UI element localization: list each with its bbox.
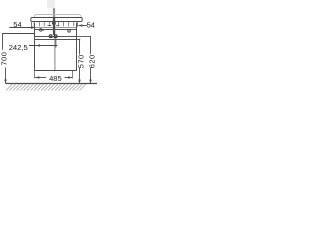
dim 485 left arrow bbox=[35, 76, 39, 78]
cabinet shelf line 1 bbox=[35, 36, 77, 38]
supply arrow left bbox=[42, 29, 45, 31]
bowl tick x44 bbox=[43, 22, 45, 27]
svg-text:485: 485 bbox=[49, 74, 62, 83]
svg-text:620: 620 bbox=[88, 54, 97, 68]
faucet body bbox=[47, 0, 55, 8]
dim 54 left arrow bbox=[31, 26, 35, 29]
dim 242.5 extension bbox=[55, 39, 57, 48]
supply line bbox=[35, 29, 77, 31]
dim 700 lower line bbox=[5, 68, 7, 84]
bowl tick x68.5 bbox=[68, 22, 70, 27]
supply circle left bbox=[40, 29, 43, 32]
dim 485 left ext bbox=[34, 71, 36, 79]
faucet stem bbox=[53, 8, 55, 18]
dim 700 bottom arrow bbox=[4, 80, 7, 84]
basin rim bbox=[31, 18, 82, 22]
dim 620 upper line bbox=[90, 37, 92, 55]
bowl tick x58.5 bbox=[58, 22, 60, 27]
bowl tick x73.5 bbox=[73, 22, 75, 27]
svg-text:570: 570 bbox=[76, 54, 85, 68]
dim 620 ext bbox=[77, 36, 92, 38]
dim 620 lower line bbox=[90, 68, 92, 83]
dash right of pipe bbox=[56, 25, 59, 27]
trap bbox=[49, 35, 52, 38]
apron bottom line bbox=[34, 27, 78, 29]
svg-text:242,5: 242,5 bbox=[9, 43, 28, 52]
bowl tick x39 bbox=[38, 22, 40, 27]
floor line bbox=[6, 83, 98, 85]
dim 485 line right bbox=[65, 77, 73, 79]
cabinet left edge bbox=[34, 23, 36, 71]
dim 242.5 line bbox=[29, 45, 57, 47]
cabinet bottom bbox=[35, 70, 77, 72]
drain pipe dark bbox=[53, 18, 55, 36]
dim 570 bottom arrow bbox=[78, 80, 81, 84]
drain pipe grey to bottom bbox=[54, 35, 56, 70]
rim right extension bbox=[77, 21, 79, 27]
bowl tick x49 bbox=[48, 22, 50, 27]
dim 570 upper line bbox=[79, 40, 81, 55]
dim 700 top leader bbox=[3, 34, 36, 50]
dim 570 ext bbox=[77, 39, 80, 41]
svg-text:700: 700 bbox=[0, 52, 9, 66]
supply circle right bbox=[68, 30, 71, 33]
dim 570 ext arrow bbox=[77, 39, 80, 41]
cabinet shelf line 2 bbox=[35, 39, 77, 41]
svg-text:54: 54 bbox=[87, 21, 95, 30]
dim 485 right ext bbox=[72, 71, 74, 79]
dim 485 right arrow bbox=[68, 76, 72, 78]
floor hatching bbox=[6, 84, 86, 91]
bowl tick x63 bbox=[62, 22, 64, 27]
dim 54 left line bbox=[9, 27, 35, 29]
dim 570 lower line bbox=[79, 68, 81, 83]
dim 485 line left bbox=[35, 77, 47, 79]
drain fitting bbox=[52, 21, 56, 24]
basin upstand top line bbox=[36, 14, 80, 16]
dim 54 right arrow bbox=[79, 24, 83, 26]
rim left extension bbox=[31, 22, 33, 28]
dim 242.5 arrow bbox=[36, 44, 40, 46]
dash left of pipe bbox=[48, 25, 52, 27]
bowl tick x34 bbox=[33, 22, 35, 27]
dim 620 bottom arrow bbox=[89, 80, 92, 84]
cabinet right edge bbox=[76, 23, 78, 71]
dim 54 right line bbox=[79, 25, 88, 27]
